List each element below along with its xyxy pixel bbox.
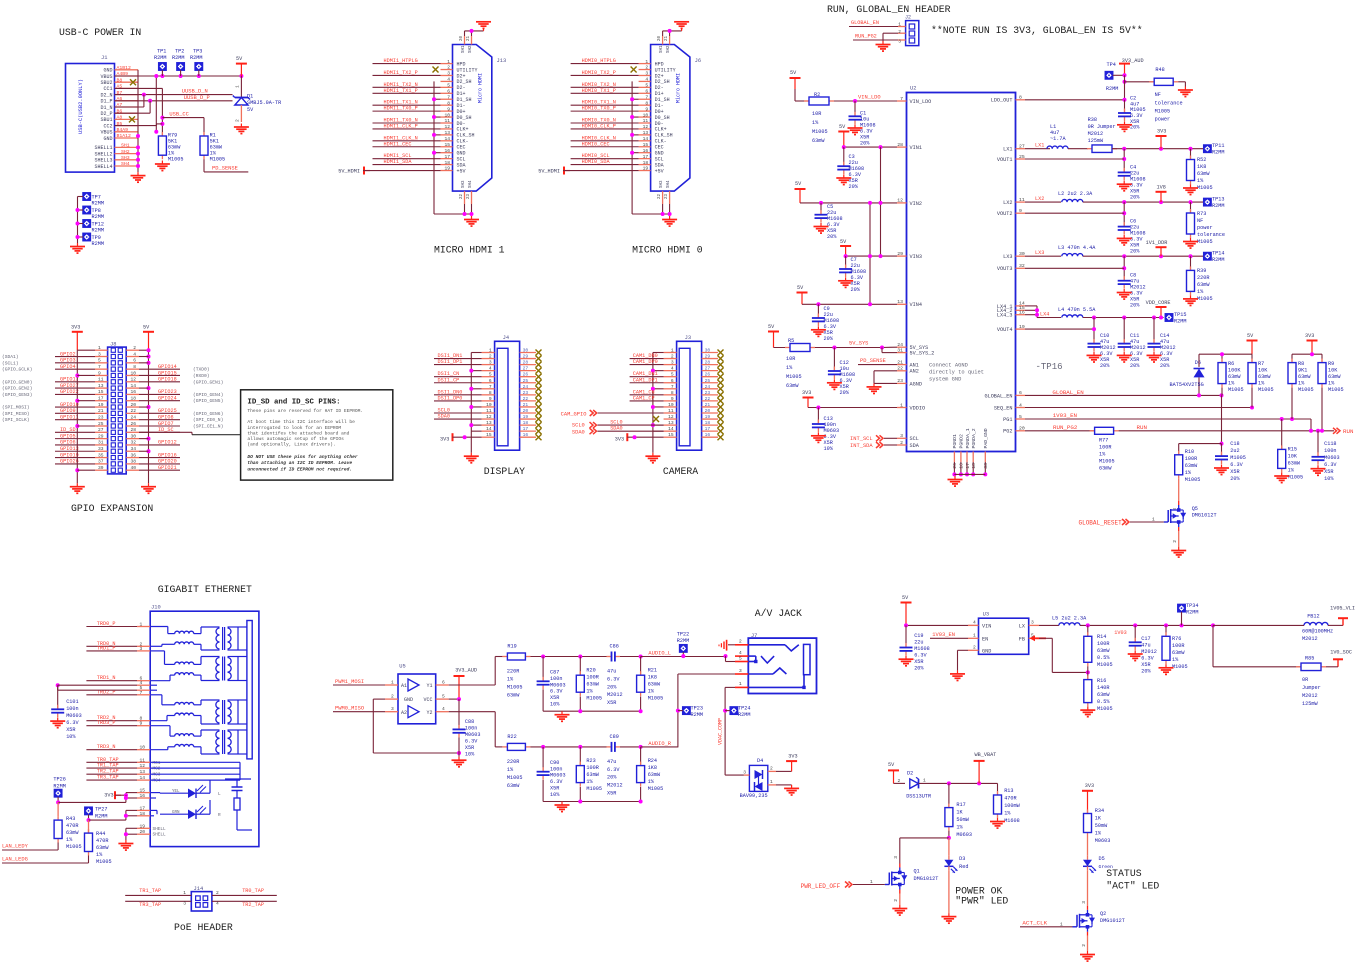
svg-text:10K: 10K: [1328, 368, 1338, 374]
svg-text:6: 6: [1019, 390, 1022, 396]
svg-text:6: 6: [133, 358, 136, 364]
svg-text:20%: 20%: [914, 666, 924, 672]
svg-text:TP13: TP13: [1212, 197, 1224, 203]
svg-text:R6: R6: [1228, 361, 1234, 367]
svg-text:LX1: LX1: [1003, 147, 1012, 153]
svg-text:14: 14: [486, 426, 492, 432]
wire net GPIO25: [139, 412, 180, 414]
svg-text:TP3: TP3: [193, 49, 202, 55]
svg-text:10: 10: [130, 370, 136, 376]
wire R17 bottom node: [948, 831, 950, 838]
ground under Q2: [1087, 951, 1089, 955]
wire net TRD2_P: [86, 694, 137, 696]
pin 28 J3: [702, 364, 718, 366]
svg-text:5V: 5V: [902, 595, 909, 601]
wire shell pins: [149, 827, 151, 829]
svg-text:R2MM: R2MM: [1212, 150, 1224, 156]
junction: [470, 29, 474, 33]
svg-text:63mW: 63mW: [1197, 282, 1210, 288]
pin 27 J3: [702, 370, 718, 372]
svg-text:RUN: RUN: [1137, 424, 1148, 431]
net arrow INT_SDA: [880, 442, 884, 448]
wire testpoint chain: [78, 196, 84, 198]
wire FB12 to 1V05_VLI: [1328, 624, 1343, 626]
wire to R5: [774, 347, 791, 349]
svg-text:10K: 10K: [1258, 368, 1268, 374]
pin 37 J8: [95, 463, 108, 465]
svg-text:1%: 1%: [1328, 381, 1335, 387]
ground top J6: [681, 28, 683, 31]
svg-text:TP34: TP34: [1186, 603, 1198, 609]
junction: [432, 115, 436, 119]
wire shield tap: [434, 152, 441, 154]
pin 5 PG1 of U2: [1016, 418, 1026, 420]
svg-text:GLOBAL_EN: GLOBAL_EN: [1052, 389, 1084, 396]
svg-text:29: 29: [705, 354, 711, 360]
svg-text:21: 21: [705, 402, 711, 408]
svg-text:than attaching an I2C ID EEPRO: than attaching an I2C ID EEPROM. Leave: [247, 460, 352, 466]
svg-text:R73: R73: [1197, 211, 1206, 217]
wire VIN1: [844, 146, 897, 148]
svg-text:35: 35: [98, 452, 104, 458]
svg-text:100n: 100n: [1324, 448, 1336, 454]
svg-text:29: 29: [523, 354, 529, 360]
svg-text:10%: 10%: [66, 734, 76, 740]
wire Y2 to R22: [449, 711, 496, 713]
wire bus tap: [471, 370, 481, 372]
svg-text:R52: R52: [1197, 157, 1206, 163]
svg-text:11: 11: [140, 757, 146, 763]
ground under C2: [1124, 121, 1126, 125]
svg-text:17: 17: [965, 463, 971, 469]
svg-text:3V3: 3V3: [1085, 783, 1094, 789]
pin 27 LX1 of U2: [1016, 148, 1026, 150]
svg-text:(GPIO_GCLK): (GPIO_GCLK): [2, 367, 32, 373]
svg-text:17: 17: [705, 426, 711, 432]
pin 9 J3: [664, 400, 677, 402]
svg-text:3: 3: [743, 770, 746, 776]
pin 27 J8: [95, 431, 108, 433]
svg-text:24: 24: [130, 414, 136, 420]
svg-text:20%: 20%: [1141, 669, 1151, 675]
svg-text:U5: U5: [399, 664, 405, 670]
svg-text:SHELL3: SHELL3: [94, 158, 112, 164]
svg-text:D6: D6: [1195, 360, 1201, 366]
svg-text:GPIO10: GPIO10: [60, 402, 79, 408]
pin 26 J8: [126, 425, 139, 427]
svg-text:2: 2: [133, 345, 136, 351]
svg-text:Red: Red: [959, 864, 968, 870]
svg-text:PD_SENSE: PD_SENSE: [212, 166, 238, 172]
svg-text:27: 27: [98, 427, 104, 433]
svg-text:100R: 100R: [1099, 445, 1111, 451]
svg-text:20%: 20%: [860, 141, 870, 147]
svg-text:63mW: 63mW: [812, 138, 825, 144]
pin 12 VIN2 of U2: [897, 202, 907, 204]
svg-text:U2: U2: [910, 86, 916, 92]
pin 19 J3: [702, 418, 718, 420]
test point TP24: [730, 707, 737, 714]
wire net HDMI0_CLK_N: [571, 140, 639, 142]
svg-text:USB_CC: USB_CC: [169, 111, 188, 117]
wire net DSI1_DN1: [434, 358, 482, 360]
svg-text:M1005: M1005: [1288, 475, 1304, 481]
ground filter: [561, 711, 563, 715]
svg-text:32: 32: [1019, 263, 1025, 269]
svg-text:5V: 5V: [768, 324, 775, 330]
test point TP34: [1178, 604, 1185, 611]
capacitor C8: [1123, 256, 1125, 281]
svg-text:11: 11: [486, 408, 492, 414]
svg-text:R2MM: R2MM: [1212, 257, 1224, 263]
wire shield tap: [632, 116, 639, 118]
svg-text:2: 2: [235, 119, 241, 122]
svg-text:100n: 100n: [465, 726, 477, 732]
wire VBUS2 link: [155, 76, 157, 132]
svg-text:**NOTE RUN IS 3V3, GLOBAL_EN I: **NOTE RUN IS 3V3, GLOBAL_EN IS 5V**: [931, 25, 1143, 36]
pin 11 J3: [664, 412, 677, 414]
svg-text:1: 1: [489, 348, 492, 354]
test point TP27: [85, 807, 92, 814]
svg-text:16: 16: [140, 793, 146, 799]
wire net HDMI0_TX1_P: [571, 92, 639, 94]
ground under J1: [137, 172, 139, 176]
svg-text:DMG1012T: DMG1012T: [1100, 918, 1125, 924]
svg-text:SHELL1: SHELL1: [94, 145, 112, 151]
svg-text:27: 27: [523, 366, 529, 372]
svg-text:3V3: 3V3: [440, 437, 449, 443]
wire VIN4: [802, 303, 897, 305]
svg-text:23: 23: [665, 193, 669, 199]
svg-text:11: 11: [98, 377, 104, 383]
pin 24 5V_SYS of U2: [897, 346, 907, 348]
pin 27 J4: [520, 370, 536, 372]
wire C88 bottom: [458, 737, 460, 756]
svg-text:1%: 1%: [586, 779, 593, 785]
svg-text:M2012: M2012: [1302, 636, 1318, 642]
svg-text:R2MM: R2MM: [1174, 319, 1186, 325]
svg-text:TP22: TP22: [677, 632, 689, 638]
pin 30 LX3 of U2: [1016, 255, 1026, 257]
ground under D3: [948, 913, 950, 917]
svg-text:31: 31: [98, 440, 104, 446]
capacitor C14: [1153, 318, 1155, 344]
pin 24 J4: [520, 388, 536, 390]
svg-text:HDMI1_TX0_P: HDMI1_TX0_P: [384, 106, 418, 112]
capacitor C90: [542, 747, 544, 772]
wire SEQ_EN: [1025, 407, 1252, 409]
no-connect X J3: [718, 422, 724, 428]
test point TP14: [1204, 253, 1211, 260]
svg-text:These pins are reserved for HA: These pins are reserved for HAT ID EEPRO…: [247, 408, 363, 414]
no-connect X J4: [536, 392, 542, 398]
wire USB_CC: [162, 117, 204, 119]
svg-text:Micro HDMI: Micro HDMI: [676, 73, 682, 103]
svg-text:D2_N: D2_N: [100, 92, 112, 98]
svg-text:3: 3: [183, 901, 186, 907]
wire PGND bus: [954, 473, 985, 475]
svg-text:PGND1: PGND1: [952, 434, 958, 449]
svg-text:VIN_LDO: VIN_LDO: [858, 95, 881, 101]
capacitor C7: [845, 256, 847, 269]
pin 30 J3: [702, 352, 718, 354]
wire net GPIO18: [139, 381, 180, 383]
svg-text:ACT_CLK: ACT_CLK: [1022, 920, 1047, 927]
svg-text:TP1: TP1: [157, 49, 166, 55]
svg-text:HDMI0_SDA: HDMI0_SDA: [582, 159, 611, 165]
wire net HDMI1_TX0_P: [373, 110, 441, 112]
wire net TR2_TAP: [86, 773, 137, 775]
pin 40 J8: [126, 469, 139, 471]
svg-text:M1005: M1005: [507, 685, 523, 691]
svg-text:15: 15: [140, 788, 146, 794]
pin 20 J4: [520, 412, 536, 414]
resistor R9: [1321, 359, 1323, 363]
wire INT_SDA: [884, 444, 897, 446]
svg-text:TP24: TP24: [738, 706, 750, 712]
svg-text:HDMI1_HTPLG: HDMI1_HTPLG: [384, 58, 418, 64]
svg-text:PWM1_MOSI: PWM1_MOSI: [335, 679, 364, 685]
svg-text:M1608: M1608: [914, 646, 930, 652]
pin 25 VOUT1 of U2: [1016, 158, 1026, 160]
wire TP4 to 3V3_AUD: [1113, 74, 1125, 76]
svg-text:DO NOT USE these pins for anyt: DO NOT USE these pins for anything other: [247, 454, 358, 460]
svg-text:18: 18: [971, 463, 977, 469]
svg-text:33: 33: [98, 446, 104, 452]
junction: [651, 423, 655, 427]
pin 5 J8: [95, 362, 108, 364]
svg-text:6.3V: 6.3V: [607, 767, 620, 773]
svg-text:2: 2: [391, 694, 394, 700]
svg-text:R19: R19: [507, 644, 516, 650]
svg-text:63mW: 63mW: [507, 783, 520, 789]
svg-text:VIN_LDO: VIN_LDO: [910, 99, 932, 105]
svg-text:LAN_LEDY: LAN_LEDY: [2, 844, 29, 850]
svg-text:6.3V: 6.3V: [1230, 462, 1243, 468]
resistor R13: [997, 783, 999, 795]
ground under C118: [1317, 465, 1319, 469]
pin 23 J4: [520, 394, 536, 396]
svg-text:PGND2: PGND2: [959, 434, 965, 449]
shield bus wire J6: [631, 81, 633, 214]
pin 9 VOUT2 of U2: [1016, 212, 1026, 214]
svg-text:TP27: TP27: [95, 807, 107, 813]
svg-text:63mW: 63mW: [1097, 648, 1110, 654]
pin 14 J8: [126, 387, 139, 389]
pin stub J1: [115, 118, 139, 120]
resistor R10: [1178, 451, 1180, 455]
ground under C5: [820, 223, 822, 227]
pin stubs U5: [385, 684, 398, 686]
svg-text:CAM1_CP: CAM1_CP: [633, 395, 655, 401]
svg-text:1%: 1%: [66, 837, 73, 843]
svg-text:1%: 1%: [1288, 468, 1295, 474]
wire R8 bottom: [1291, 388, 1293, 419]
wire net HDMI0_HTPLG: [571, 63, 639, 65]
svg-text:SH4: SH4: [469, 180, 473, 188]
wire net CAM1_CP: [630, 400, 664, 402]
svg-text:63mW: 63mW: [1197, 171, 1210, 177]
wire bus tap: [653, 430, 664, 432]
pin 13 J10: [137, 773, 150, 775]
svg-text:that identifes the attached bo: that identifes the attached board and: [247, 430, 349, 436]
no-connect X J4: [536, 398, 542, 404]
svg-text:63mW: 63mW: [1185, 463, 1198, 469]
svg-text:2: 2: [898, 778, 901, 784]
wire D2 to nodes: [919, 782, 998, 784]
pin 8 J3: [664, 394, 677, 396]
svg-text:47u: 47u: [1141, 643, 1150, 649]
pin 2 J3: [664, 358, 677, 360]
svg-text:R2MM: R2MM: [92, 241, 104, 247]
pin 29 J4: [520, 358, 536, 360]
svg-text:1%: 1%: [1004, 811, 1011, 817]
wire net HDMI0_TX2_N: [571, 86, 639, 88]
pin 23 J3: [702, 394, 718, 396]
no-connect X J3: [718, 368, 724, 374]
pin 16 LX4_3 of U2: [1016, 314, 1026, 316]
ground under R15: [1281, 473, 1283, 477]
wire bus tap: [653, 424, 664, 426]
pin 17 J10: [137, 809, 150, 811]
svg-text:5: 5: [671, 372, 674, 378]
svg-text:25: 25: [523, 378, 529, 384]
ground top J13: [483, 28, 485, 31]
pin 18 J3: [702, 424, 718, 426]
svg-text:C18: C18: [1230, 441, 1239, 447]
svg-text:63mW: 63mW: [507, 693, 520, 699]
junction: [842, 145, 846, 149]
svg-text:DSI1_DP0: DSI1_DP0: [438, 395, 463, 401]
pin 17 J8: [95, 400, 108, 402]
svg-text:7: 7: [98, 364, 101, 370]
ground under C6: [1123, 235, 1125, 239]
no-connect X J4: [536, 404, 542, 410]
svg-text:30: 30: [705, 348, 711, 354]
capacitor C10: [1093, 339, 1095, 344]
svg-text:SH1: SH1: [660, 45, 664, 53]
wire TR1_TAP: [125, 894, 191, 896]
wire FB node: [1039, 637, 1052, 639]
svg-text:1%: 1%: [96, 852, 103, 858]
pin 39 J8: [95, 469, 108, 471]
capacitor C118: [1317, 431, 1319, 457]
pin 25 J4: [520, 382, 536, 384]
svg-text:NF: NF: [1155, 92, 1161, 98]
ground under D1: [240, 124, 242, 128]
svg-text:C87: C87: [550, 670, 559, 676]
svg-text:3: 3: [140, 646, 143, 652]
svg-text:18: 18: [523, 420, 529, 426]
svg-text:J3: J3: [685, 335, 691, 341]
svg-text:0R Jumper: 0R Jumper: [1088, 124, 1116, 130]
wire AN2 to AGND ground: [874, 370, 897, 372]
pin 15 LX4_2 of U2: [1016, 309, 1026, 311]
svg-text:10: 10: [959, 463, 965, 469]
svg-text:PG1: PG1: [1003, 417, 1012, 423]
svg-text:M1005: M1005: [1097, 662, 1113, 668]
no-connect X pin2 J13: [433, 67, 439, 73]
svg-text:20: 20: [460, 35, 464, 41]
pin stub J1: [115, 81, 139, 83]
ground under C3: [843, 175, 845, 179]
svg-text:1V03: 1V03: [1114, 630, 1126, 636]
svg-text:C101: C101: [66, 699, 78, 705]
svg-text:19: 19: [140, 823, 146, 829]
ground under Q5: [1178, 547, 1180, 551]
svg-text:22: 22: [130, 408, 136, 414]
pin 17 J3: [702, 430, 718, 432]
svg-text:10%: 10%: [550, 792, 560, 798]
pin 10 J10: [137, 749, 150, 751]
pin 28 VIN1 of U2: [897, 146, 907, 148]
svg-text:12: 12: [140, 763, 146, 769]
junction: [160, 116, 164, 120]
svg-text:SDA0: SDA0: [438, 414, 450, 420]
svg-text:(SPI_CE0_N): (SPI_CE0_N): [193, 417, 223, 423]
junction: [136, 134, 140, 138]
svg-text:36: 36: [130, 452, 136, 458]
svg-text:INT_SDA: INT_SDA: [850, 443, 873, 449]
svg-text:LX4: LX4: [1040, 312, 1049, 318]
pin 8 J10: [137, 720, 150, 722]
pin 16 J4: [520, 436, 536, 438]
wire net HDMI1_TX2_N: [373, 86, 441, 88]
wire bus tap: [653, 352, 664, 354]
ground under C7: [845, 277, 847, 281]
svg-text:220R: 220R: [507, 669, 519, 675]
svg-text:SMBJ5.0A-TR: SMBJ5.0A-TR: [247, 100, 281, 106]
svg-text:WB_VBAT: WB_VBAT: [975, 752, 997, 758]
svg-text:M1005: M1005: [1228, 387, 1244, 393]
svg-text:(GPIO_GEN1): (GPIO_GEN1): [193, 379, 223, 385]
ground under R73: [1190, 238, 1192, 242]
pin 20 PG2 of U2: [1016, 430, 1026, 432]
svg-text:M2012: M2012: [1141, 649, 1157, 655]
transistor Q5 DMG1012T: [1178, 479, 1180, 501]
svg-text:R2MM: R2MM: [677, 638, 689, 644]
svg-text:TR3_TAP: TR3_TAP: [97, 775, 119, 781]
ground under C1: [854, 125, 856, 129]
wire net HDMI0_CEC: [571, 146, 639, 148]
svg-text:GPIO EXPANSION: GPIO EXPANSION: [71, 503, 153, 514]
svg-text:6.3V: 6.3V: [465, 739, 478, 745]
svg-text:23: 23: [897, 378, 903, 384]
svg-text:GPIO24: GPIO24: [158, 396, 177, 402]
wire LX4: [1040, 317, 1061, 319]
wire J2 pin2 to ground: [898, 32, 906, 34]
svg-text:GPIO2: GPIO2: [60, 351, 76, 357]
capacitor C13: [817, 408, 819, 425]
svg-text:63mW: 63mW: [648, 682, 661, 688]
wire output: [641, 746, 678, 748]
wire top shield: [464, 31, 466, 36]
pin stub J1: [115, 165, 139, 167]
ground under R39: [1190, 295, 1192, 299]
svg-text:13: 13: [486, 420, 492, 426]
wire bottom shield: [662, 204, 664, 214]
pin 28 J4: [520, 364, 536, 366]
ground bottom J13: [471, 216, 473, 220]
svg-text:TRD1_N: TRD1_N: [97, 675, 116, 681]
svg-text:10R: 10R: [786, 356, 795, 362]
junction: [239, 74, 243, 78]
svg-text:1: 1: [671, 348, 674, 354]
pin stub J1: [115, 125, 139, 127]
svg-text:63mW: 63mW: [1288, 461, 1301, 467]
svg-text:5V: 5V: [790, 70, 797, 76]
svg-text:2: 2: [1172, 540, 1178, 543]
